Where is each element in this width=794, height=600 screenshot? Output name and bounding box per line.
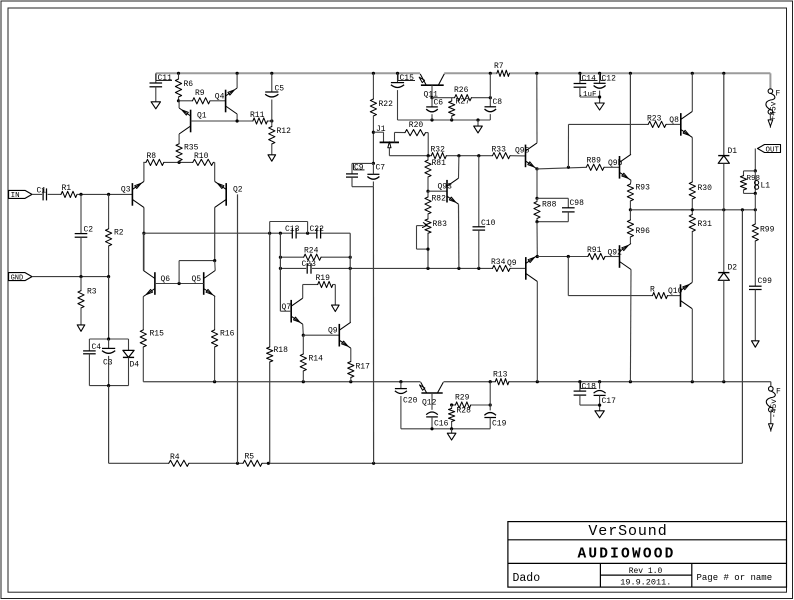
node input dots	[79, 193, 110, 196]
wire Q9 emitter down	[350, 348, 352, 361]
wire C9 loop bottom	[352, 177, 373, 187]
wire Q7 base	[280, 310, 291, 312]
title date	[620, 577, 671, 587]
wire Q2 collector down	[214, 207, 216, 260]
wire rail to fuse F+	[769, 73, 771, 89]
capacitor C8	[485, 73, 503, 120]
svg-text:R88: R88	[542, 201, 557, 210]
title AUDIOWOOD	[577, 547, 675, 563]
wire L1 to node	[754, 193, 756, 209]
diode D2	[718, 264, 737, 281]
capacitor C12	[594, 73, 617, 103]
wire D1 stem top	[723, 73, 725, 155]
transistor Q1	[179, 108, 207, 134]
ground below R28	[447, 433, 456, 440]
resistor R9	[179, 89, 226, 104]
ground below R3	[77, 325, 85, 331]
svg-text:R18: R18	[274, 346, 289, 355]
ground stub R28	[451, 429, 453, 433]
wire Q10 collector down	[691, 309, 693, 382]
svg-text:Q10: Q10	[668, 287, 683, 296]
resistor R22	[370, 73, 393, 163]
resistor R6	[175, 73, 193, 101]
resistor R98 loop	[740, 171, 760, 194]
node VAS out dot	[629, 208, 632, 211]
wire R19 right to ground	[333, 285, 335, 306]
svg-text:Q3: Q3	[121, 186, 131, 195]
capacitor C16	[426, 412, 448, 429]
transistor Q11 (series in rail)	[419, 74, 444, 85]
transistor Q95b	[507, 255, 537, 281]
wire Q1 emitter up	[178, 101, 180, 108]
svg-text:VerSound: VerSound	[588, 523, 667, 540]
wire Q93 base	[428, 190, 447, 192]
capacitor C23	[302, 260, 317, 274]
svg-text:Q2: Q2	[233, 186, 243, 195]
svg-text:R24: R24	[304, 247, 319, 256]
node Q5 collector dot	[213, 259, 216, 262]
wire GND node down to C4 box	[108, 277, 110, 339]
wire Q8 emitter to R30	[691, 137, 693, 182]
node R89 line dot	[567, 166, 570, 169]
resistor R3	[78, 277, 97, 325]
svg-text:C7: C7	[376, 164, 386, 173]
title block frame	[508, 522, 787, 588]
svg-text:C22: C22	[310, 225, 325, 234]
resistor R10	[193, 152, 214, 166]
svg-text:Q5: Q5	[192, 275, 202, 284]
svg-text:R32: R32	[431, 146, 446, 155]
resistor R4	[169, 453, 189, 466]
wire R8/R10 line	[143, 161, 214, 163]
wire Q2 base down	[237, 194, 239, 463]
resistor R17	[348, 362, 370, 382]
resistor R	[650, 286, 668, 299]
wire node to feedback riser dot	[741, 210, 743, 211]
capacitor C2	[75, 194, 94, 276]
node C8 top dot	[489, 96, 492, 99]
resistor R1	[61, 184, 77, 198]
flag IN	[9, 190, 32, 200]
node block bottom dots	[430, 427, 453, 430]
svg-text:C13: C13	[285, 225, 300, 234]
svg-text:R28: R28	[457, 407, 472, 416]
fuse F -45V	[766, 387, 781, 412]
node C15-line dots	[430, 118, 479, 121]
svg-text:R35: R35	[184, 144, 199, 153]
svg-text:Q9: Q9	[507, 259, 517, 268]
flag OUT	[758, 145, 781, 155]
capacitor C3	[102, 339, 115, 386]
resistor R7 (series in rail)	[494, 62, 509, 76]
jfet J1	[373, 125, 399, 156]
wire Q3 collector down	[143, 207, 145, 270]
svg-text:R22: R22	[379, 100, 394, 109]
resistor R16	[212, 297, 235, 382]
wire comp left riser	[279, 233, 281, 311]
node R98 bottom dot	[754, 192, 757, 195]
wire Q8 collector to rail	[691, 73, 693, 111]
wire R91 to Q10 riser	[568, 257, 680, 296]
svg-text:R16: R16	[220, 330, 235, 339]
svg-text:R93: R93	[636, 184, 651, 193]
svg-text:C19: C19	[492, 420, 507, 429]
svg-text:C98: C98	[570, 199, 585, 208]
wire R89 line	[537, 167, 620, 169]
node comp-line dots	[268, 232, 309, 235]
node box top dot	[107, 337, 110, 340]
node C17 bottom dot	[598, 404, 601, 407]
svg-text:R5: R5	[245, 453, 255, 462]
fuse F +45V	[766, 89, 781, 114]
resistor R31	[689, 210, 712, 283]
svg-text:C20: C20	[403, 397, 418, 406]
capacitor C98 loop	[537, 198, 584, 221]
capacitor C13	[285, 225, 300, 239]
capacitor C1	[37, 187, 47, 201]
label .1uF	[579, 91, 597, 99]
svg-text:.1uF: .1uF	[579, 91, 597, 99]
svg-text:R12: R12	[277, 127, 292, 136]
wire Q2 emitter up	[214, 162, 216, 181]
wire R23 line	[569, 123, 681, 125]
wire Q92 collector down	[629, 270, 632, 382]
svg-text:C23: C23	[302, 260, 317, 269]
transistor Q8	[669, 111, 692, 137]
wire D1 to node	[723, 163, 725, 210]
trimmer R83 wiper	[417, 223, 429, 250]
wire Q11 base stub	[431, 85, 433, 98]
inductor L1	[755, 171, 771, 194]
wire Q5 collector up	[214, 261, 217, 271]
resistor R96	[627, 210, 650, 244]
wire node to D2	[723, 210, 725, 273]
svg-text:F: F	[776, 388, 781, 397]
ground below C17/C18	[595, 411, 604, 418]
svg-text:C99: C99	[758, 277, 773, 286]
wire feedback line	[109, 462, 743, 464]
svg-text:R34: R34	[491, 258, 506, 267]
title Page	[697, 573, 773, 583]
svg-text:R83: R83	[433, 220, 448, 229]
wire down to Q95b	[536, 222, 538, 257]
ground stub C15-line	[477, 120, 479, 126]
resistor R30	[689, 182, 712, 210]
svg-text:C11: C11	[158, 74, 173, 83]
svg-text:R89: R89	[587, 157, 602, 166]
svg-text:D1: D1	[728, 147, 738, 156]
diode D4	[123, 339, 139, 386]
resistor R5	[243, 453, 262, 467]
node R32 line dots	[427, 154, 481, 157]
flag GND	[9, 273, 32, 283]
resistor R99	[752, 210, 774, 286]
wire Q96 emitter to R93	[629, 180, 632, 184]
svg-text:Q92: Q92	[608, 249, 623, 258]
title VerSound	[588, 523, 667, 540]
node R35 top dot	[178, 161, 181, 164]
resistor R11	[250, 111, 267, 124]
resistor R18	[267, 233, 289, 463]
svg-text:R30: R30	[698, 184, 713, 193]
wire C23/R34 line	[280, 267, 525, 269]
svg-text:Q4: Q4	[215, 93, 225, 102]
wire mirror cross-connect	[179, 261, 215, 284]
transistor Q95	[515, 143, 537, 169]
svg-text:Q8: Q8	[669, 116, 679, 125]
transistor Q10	[668, 283, 692, 309]
svg-text:R91: R91	[587, 246, 602, 255]
svg-text:Dado: Dado	[513, 572, 541, 585]
wire Q95 collector to rail	[536, 73, 538, 143]
capacitor C7	[367, 164, 385, 180]
wire C13 bypass loop	[270, 222, 308, 234]
node R14 top dot	[302, 334, 305, 337]
svg-text:R6: R6	[184, 80, 194, 89]
resistor R34	[491, 258, 510, 272]
svg-text:R96: R96	[636, 227, 651, 236]
svg-text:C17: C17	[602, 397, 617, 406]
transistor Q3	[121, 181, 144, 207]
node box bottom dot	[107, 384, 110, 387]
node R29 dots	[450, 403, 492, 406]
wire Q4 emitter to rail	[236, 73, 238, 88]
wire Q7 collector to R19	[303, 285, 318, 299]
transistor Q9	[328, 322, 351, 348]
svg-text:J1: J1	[376, 125, 386, 134]
transistor Q92	[608, 244, 632, 270]
wire Q4 collector down	[236, 114, 238, 121]
resistor R33	[492, 146, 511, 159]
svg-text:Q1: Q1	[197, 112, 207, 121]
resistor R88	[534, 198, 557, 221]
svg-text:C2: C2	[84, 226, 94, 235]
wire R26 line	[424, 91, 491, 100]
transistor Q96	[608, 154, 631, 180]
resistor R20	[405, 121, 426, 136]
node R88 bottom dot	[535, 220, 538, 223]
wire GND line	[32, 276, 109, 278]
svg-text:C3: C3	[103, 359, 113, 368]
wire Q93 emitter down	[458, 204, 460, 268]
wire Q1 collector to R35	[178, 134, 180, 144]
svg-text:R15: R15	[150, 330, 165, 339]
node R6 bottom dot	[177, 99, 180, 102]
wire Q9 base line	[303, 334, 339, 336]
wire Q12 base stub	[431, 393, 433, 410]
svg-text:Page # or name: Page # or name	[697, 573, 773, 583]
wire C4/C3/D4 box top	[89, 338, 128, 340]
resistor R93	[627, 184, 650, 210]
wire OUT down	[754, 149, 756, 171]
wire IN to C1	[32, 193, 42, 195]
node Q3 collector dot	[142, 232, 145, 235]
svg-text:Q7: Q7	[282, 303, 292, 312]
arrow -45v down	[769, 424, 774, 432]
capacitor C15	[391, 73, 415, 120]
resistor R26	[454, 86, 471, 101]
node Q11 base dot	[430, 96, 433, 99]
svg-text:R: R	[650, 286, 655, 295]
node top-rail junction dots	[177, 72, 726, 75]
node R24 dots	[279, 256, 352, 259]
node Q95b emitter dot	[536, 255, 539, 258]
wire R23 to R89 riser	[567, 124, 569, 167]
wire C4/C3/D4 box bottom	[89, 385, 128, 387]
node C12 bottom dot	[598, 95, 601, 98]
node Q95 emitter dot	[535, 167, 538, 170]
svg-text:R20: R20	[409, 121, 424, 130]
svg-text:C16: C16	[434, 420, 449, 429]
wire D2 to rail	[723, 280, 725, 381]
svg-text:R3: R3	[87, 288, 97, 297]
resistor R89	[586, 157, 604, 171]
svg-text:Q6: Q6	[161, 275, 171, 284]
wire Q3 emitter up	[143, 162, 145, 181]
transistor Q7	[282, 298, 303, 324]
svg-text:F: F	[776, 90, 781, 99]
title Dado	[513, 572, 541, 585]
resistor R12	[269, 121, 291, 155]
svg-text:C5: C5	[275, 85, 285, 94]
svg-text:C12: C12	[602, 75, 617, 84]
capacitor C9	[346, 164, 365, 178]
wire Q6 collector up	[142, 233, 144, 270]
resistor R27	[449, 98, 471, 121]
transistor Q5	[192, 271, 216, 297]
resistor R2	[106, 194, 124, 276]
svg-text:R13: R13	[493, 371, 508, 380]
svg-text:R10: R10	[194, 152, 209, 161]
wire Q95b collector down	[536, 281, 538, 381]
node J1 gate dot	[372, 131, 375, 134]
resistor R23	[647, 115, 666, 128]
svg-text:R1: R1	[62, 184, 72, 193]
wire rail to fuse F-	[770, 382, 772, 387]
node C23 line dots	[279, 267, 481, 270]
resistor R24	[304, 247, 321, 261]
node Q93 base dot	[426, 190, 429, 193]
wire R20 right down	[426, 133, 429, 156]
wire Q93 collector up	[458, 156, 460, 179]
wire x630 from rail	[629, 73, 631, 154]
capacitor C14	[574, 73, 600, 97]
wire Q1 base line	[191, 120, 272, 122]
svg-text:Q9b: Q9b	[608, 159, 623, 168]
svg-text:D2: D2	[728, 264, 738, 273]
node R91 line dot	[567, 255, 570, 258]
transistor Q93	[438, 178, 459, 204]
node C9/C7 top dot	[372, 162, 375, 165]
resistor R14	[300, 335, 323, 382]
svg-text:R8: R8	[147, 152, 157, 161]
svg-text:C4: C4	[92, 343, 102, 352]
resistor R82	[425, 191, 446, 214]
capacitor C99	[749, 277, 772, 290]
svg-text:R82: R82	[432, 195, 447, 204]
wire output node line	[630, 209, 755, 211]
wire Q7 emitter down	[302, 324, 305, 335]
node output line dots	[691, 208, 757, 211]
svg-text:R17: R17	[356, 363, 371, 372]
wire C7 stems	[372, 163, 374, 186]
resistor R15	[140, 297, 164, 382]
wire comp right riser	[349, 233, 351, 322]
svg-text:R31: R31	[698, 220, 713, 229]
svg-text:R99: R99	[760, 226, 775, 235]
svg-text:R19: R19	[316, 274, 331, 283]
svg-text:R33: R33	[492, 146, 507, 155]
capacitor C22	[310, 225, 325, 239]
svg-text:C8: C8	[493, 98, 503, 107]
wire Q6 base to Q5 base	[155, 283, 204, 285]
svg-text:R7: R7	[494, 62, 504, 71]
svg-text:19.9.2011.: 19.9.2011.	[620, 577, 671, 587]
svg-text:R81: R81	[432, 159, 447, 168]
wire J1 source to R20	[395, 131, 406, 133]
svg-text:Q93: Q93	[438, 183, 453, 192]
svg-text:R11: R11	[250, 111, 265, 120]
resistor R28	[449, 405, 472, 429]
capacitor C6	[426, 98, 443, 120]
label +45v	[770, 101, 779, 120]
wire R1 to Q3 base	[77, 193, 132, 195]
capacitor C4	[83, 339, 101, 386]
wire fuse to arrow	[769, 114, 771, 120]
transistor Q6	[143, 271, 170, 297]
capacitor C10	[473, 156, 496, 269]
node Q1 base line dots	[236, 119, 274, 122]
wire R24 line	[280, 256, 350, 258]
transistor Q4	[215, 88, 237, 114]
diode D1	[718, 147, 737, 163]
wire C99 down	[754, 290, 756, 341]
node bottom-rail junction dots	[213, 380, 725, 383]
ground below C99	[752, 341, 760, 347]
capacitor C18	[574, 382, 600, 405]
svg-text:C10: C10	[481, 219, 496, 228]
ground below C12/C14	[595, 103, 604, 110]
resistor R81	[425, 156, 446, 192]
capacitor C11	[150, 73, 173, 102]
svg-text:R27: R27	[456, 98, 471, 107]
wire Q95e down to R88	[536, 169, 538, 198]
ground below R19	[332, 305, 340, 311]
svg-text:R14: R14	[309, 355, 324, 364]
svg-text:Q95: Q95	[515, 147, 530, 156]
resistor R8	[146, 152, 164, 166]
wire mid riser down	[372, 187, 374, 464]
wire bottom -45V rail	[143, 381, 771, 383]
svg-text:R26: R26	[454, 86, 469, 95]
svg-text:D4: D4	[130, 361, 140, 370]
svg-text:C6: C6	[434, 99, 444, 108]
label -45v	[770, 399, 779, 418]
wire block bottom line	[401, 428, 490, 430]
node R98 top dot	[754, 169, 757, 172]
svg-text:R29: R29	[455, 394, 470, 403]
svg-text:R23: R23	[647, 115, 662, 124]
node GND line dots	[79, 275, 110, 278]
capacitor C19	[484, 382, 506, 429]
svg-text:R9: R9	[195, 89, 205, 98]
wire Q3-collector line to C13	[144, 232, 350, 234]
capacitor C5	[265, 73, 284, 121]
svg-text:C9: C9	[354, 164, 364, 173]
svg-text:IN: IN	[11, 192, 20, 200]
arrow +45v down	[768, 120, 773, 128]
node R88 top dot	[535, 197, 538, 200]
